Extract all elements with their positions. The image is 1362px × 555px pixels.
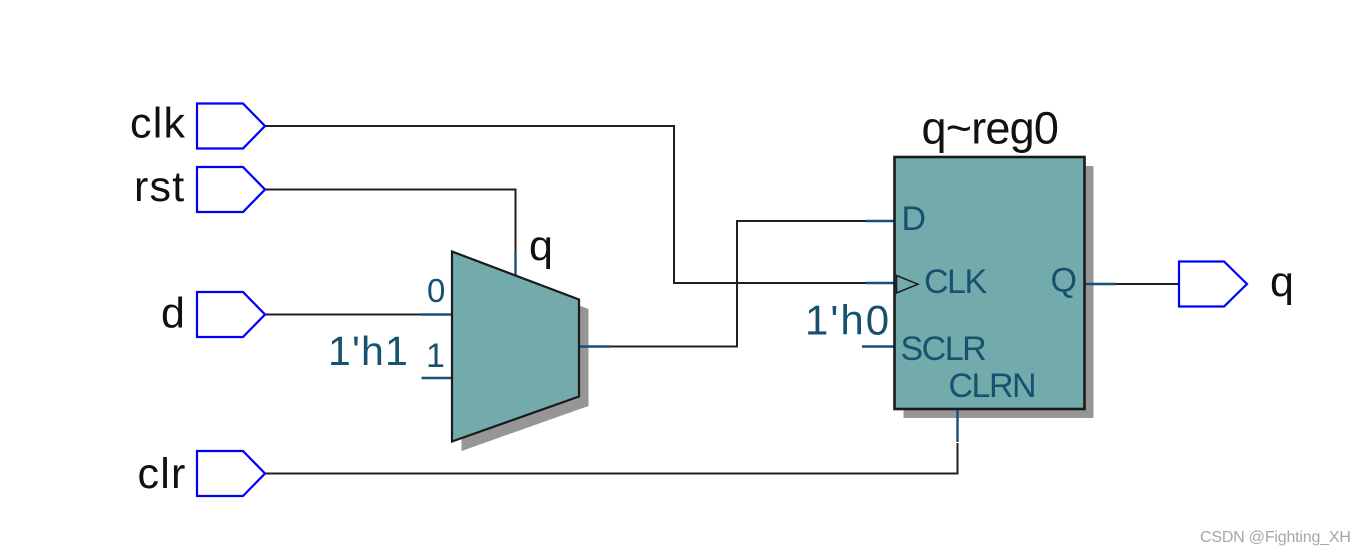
svg-text:0: 0 [427, 272, 445, 309]
svg-text:SCLR: SCLR [901, 330, 986, 368]
svg-text:q: q [529, 222, 553, 270]
svg-text:CLK: CLK [924, 263, 987, 301]
svg-text:clr: clr [138, 450, 187, 498]
svg-text:1'h1: 1'h1 [328, 328, 409, 374]
svg-text:D: D [902, 200, 925, 238]
svg-text:1: 1 [426, 337, 445, 375]
svg-text:q~reg0: q~reg0 [922, 103, 1059, 154]
svg-text:clk: clk [130, 100, 186, 148]
svg-text:CLRN: CLRN [949, 367, 1036, 405]
svg-text:d: d [161, 290, 185, 338]
svg-text:CSDN @Fighting_XH: CSDN @Fighting_XH [1200, 529, 1351, 546]
svg-text:Q: Q [1051, 262, 1076, 300]
svg-text:rst: rst [134, 163, 185, 211]
svg-text:1'h0: 1'h0 [805, 297, 891, 344]
svg-text:q: q [1270, 258, 1294, 306]
